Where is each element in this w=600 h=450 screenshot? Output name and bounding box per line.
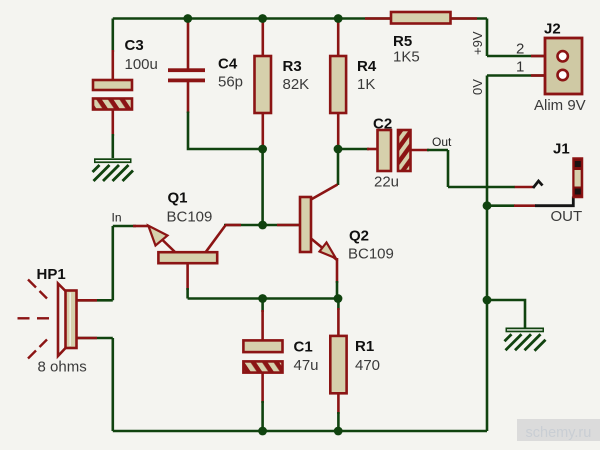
wire node B vertical to Q2 collector [337, 149, 340, 185]
pin R4 top red [337, 20, 340, 57]
connector J2 body [545, 38, 582, 94]
junction dot R1 bottom rail [334, 427, 343, 436]
capacitor C2 left plate [378, 130, 392, 171]
capacitor C3 top plate [93, 80, 132, 90]
svg-text:J2: J2 [544, 21, 561, 38]
pin Q2 base red stub [277, 224, 300, 227]
svg-text:47u: 47u [294, 357, 319, 374]
wire C1 top green bit [261, 299, 264, 313]
svg-text:Q1: Q1 [168, 190, 188, 207]
pin C4 top red [187, 20, 190, 69]
wire Out corner down [447, 150, 450, 187]
pin Q1 emitter diagonal [161, 239, 176, 254]
pin R3 top red [261, 20, 264, 57]
svg-text:1K: 1K [357, 76, 375, 93]
pin Q1 collector red top segment [225, 224, 241, 227]
wire +9V corner vertical to J2 pin2 [486, 19, 489, 57]
wire top +9V rail [113, 17, 487, 20]
svg-text:R3: R3 [283, 58, 302, 75]
svg-text:8 ohms: 8 ohms [38, 359, 87, 376]
junction dot Q2 emitter node [334, 294, 343, 303]
svg-text:In: In [112, 211, 122, 225]
ground symbol below C3 [93, 158, 134, 181]
svg-text:OUT: OUT [551, 208, 583, 225]
pin C2 right red stub [411, 149, 430, 152]
pin J1 sleeve red segment [514, 204, 536, 207]
junction dot R4 top [334, 14, 343, 23]
pin Q2 emitter diagonal [311, 239, 337, 261]
pin J1 sleeve black segment [535, 197, 573, 206]
jack J1 center slot [575, 170, 581, 187]
resistor R4 [330, 56, 346, 113]
wire top rail red stub right of R5 [451, 17, 478, 20]
svg-text:C2: C2 [373, 116, 392, 133]
wire C4 bottom corner to node [188, 112, 263, 150]
pin Q2 emitter vertical red [336, 258, 339, 283]
capacitor C2 right hatched plate [398, 130, 411, 171]
speaker HP1 cone [58, 284, 66, 357]
watermark box [517, 419, 600, 441]
pin R4 bottom red [337, 113, 340, 146]
transistor Q2 emitter arrow [320, 243, 336, 259]
svg-text:2: 2 [516, 41, 524, 58]
junction dot Q1 collector node [258, 221, 267, 230]
svg-text:C1: C1 [294, 339, 313, 356]
pin Q1 collector diagonal [205, 225, 225, 252]
pin R1 bottom red [337, 393, 340, 414]
svg-text:470: 470 [355, 357, 380, 374]
svg-text:J1: J1 [553, 141, 570, 158]
junction node A R3 bottom [258, 145, 267, 154]
wire left bottom vertical [112, 338, 115, 431]
wire speaker top terminal [77, 299, 113, 302]
wire J2 pin1 horizontal [487, 74, 545, 77]
wire Q1 collector net to Q2 base [224, 224, 300, 227]
svg-text:1K5: 1K5 [393, 49, 420, 66]
junction dot J1 sleeve node [483, 201, 492, 210]
svg-text:Alim 9V: Alim 9V [534, 97, 586, 114]
wire top rail red stub left of R5 [365, 17, 391, 20]
resistor R3 [255, 56, 272, 113]
svg-text:82K: 82K [283, 76, 310, 93]
junction node B R4 bottom [334, 145, 343, 154]
pin C1 bottom red [261, 373, 264, 403]
wire Out from C2 [427, 149, 448, 152]
capacitor C1 bottom hatched plate [243, 361, 282, 372]
pin J2 pin1 red stub [531, 74, 545, 77]
svg-text:R1: R1 [355, 338, 374, 355]
svg-text:C3: C3 [125, 37, 144, 54]
svg-text:BC109: BC109 [167, 209, 213, 226]
jack J1 top contact square [575, 161, 581, 167]
transistor Q1 emitter arrow [148, 226, 167, 246]
junction dot C4 top [183, 14, 192, 23]
wire C1 bottom to rail [261, 401, 264, 431]
speaker HP1 body highlight [69, 293, 71, 347]
wire 0V vertical rail [486, 76, 489, 432]
wire ground branch right [487, 300, 525, 328]
svg-text:1: 1 [516, 59, 524, 76]
junction dot ground branch node [483, 296, 492, 305]
pin speaker bottom red stub [77, 337, 98, 340]
connector J2 pin2 circle [558, 51, 568, 61]
wire In vertical [112, 226, 115, 300]
junction dot C1 top node [258, 294, 267, 303]
junction dot R3 top [258, 14, 267, 23]
wire J1 sleeve green [487, 204, 515, 207]
capacitor C4 top bar [168, 68, 205, 72]
svg-text:22u: 22u [374, 174, 399, 191]
pin R1 top red [337, 308, 340, 336]
transistor Q1 base bar [158, 252, 217, 263]
wire In horizontal to Q1 emitter [113, 225, 136, 228]
jack J1 body [573, 158, 583, 198]
svg-text:BC109: BC109 [348, 246, 394, 263]
resistor R1 [330, 336, 346, 393]
svg-text:+9V: +9V [470, 31, 485, 55]
svg-text:C4: C4 [218, 56, 238, 73]
pin Q1 base vertical red [186, 263, 189, 290]
svg-text:HP1: HP1 [37, 266, 66, 283]
transistor Q2 base bar [300, 197, 311, 252]
svg-text:Out: Out [432, 135, 452, 149]
wire R1 top green bit [337, 299, 340, 311]
svg-text:Q2: Q2 [349, 228, 369, 245]
capacitor C1 top plate [243, 340, 282, 352]
jack J1 bottom contact square [575, 189, 581, 195]
wire C3 to ground [112, 134, 115, 158]
svg-text:R4: R4 [357, 58, 377, 75]
svg-text:schemy.ru: schemy.ru [526, 425, 592, 441]
wire C3 top pin [112, 19, 115, 53]
pin C3 top red [112, 50, 115, 80]
wire node B to C2 [338, 148, 369, 151]
svg-text:0V: 0V [470, 79, 485, 95]
wire R1 bottom to rail [337, 412, 340, 431]
resistor R5 [391, 12, 451, 24]
junction dot C1 bottom rail [258, 427, 267, 436]
pin R3 bottom red [261, 113, 264, 146]
wire Out horizontal [448, 186, 515, 189]
svg-text:100u: 100u [125, 56, 158, 73]
pin C1 top red [261, 310, 264, 340]
wire feedback net horizontal [188, 297, 338, 300]
ground symbol right [505, 328, 546, 351]
speaker HP1 sound rays [18, 280, 50, 359]
svg-text:R5: R5 [393, 33, 412, 50]
wire Q1 base to feedback net [186, 288, 189, 299]
wire node A vertical to Q1 collector net [261, 149, 264, 225]
capacitor C4 bottom bar [168, 79, 205, 83]
connector J2 pin1 circle [558, 70, 568, 80]
pin J1 tip contact hook [533, 181, 543, 188]
svg-text:56p: 56p [218, 74, 243, 91]
pin J2 pin2 red stub [531, 55, 545, 58]
capacitor C3 bottom hatched plate [93, 99, 132, 110]
pin speaker top red stub [77, 299, 98, 302]
pin J1 tip red segment [515, 186, 533, 189]
pin C3 bottom red [112, 110, 115, 137]
pin Q2 collector diagonal [311, 185, 338, 200]
pin C2 left red stub [367, 148, 378, 151]
wire Q2 emitter to feedback net [336, 281, 339, 299]
wire speaker bottom terminal [77, 337, 113, 340]
wire J2 pin2 horizontal [487, 55, 545, 58]
pin C4 bottom red [187, 82, 190, 113]
speaker HP1 body [66, 291, 77, 349]
wire bottom 0V rail [113, 430, 487, 433]
pin Q1 emitter red stub [133, 225, 149, 228]
